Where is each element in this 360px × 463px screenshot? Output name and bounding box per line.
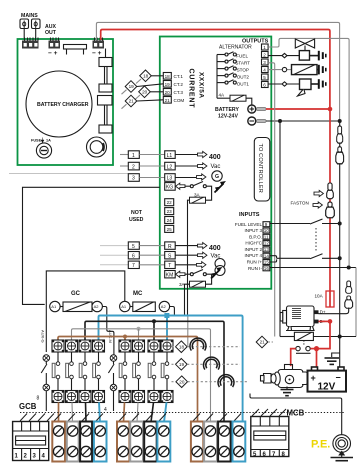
fuse F-mains-1 — [20, 19, 29, 29]
svg-text:A2: A2 — [94, 304, 100, 309]
wire aux-out minus up-over to right (to batt minus vertical) — [96, 22, 339, 119]
svg-text:20: 20 — [179, 379, 185, 384]
svg-text:16: 16 — [264, 266, 270, 271]
red wires starter circuit — [317, 321, 331, 348]
terminal row 1 — [52, 340, 173, 352]
wire B+ red — [319, 320, 331, 322]
svg-text:18: 18 — [165, 74, 171, 79]
svg-text:20: 20 — [165, 90, 171, 95]
row2 to strips colored wires — [58, 402, 60, 422]
charger circle — [26, 71, 92, 137]
svg-text:6: 6 — [132, 253, 135, 259]
wire output1 alternator loop — [268, 38, 349, 267]
svg-text:9: 9 — [265, 222, 268, 227]
svg-text:CT.2: CT.2 — [174, 82, 184, 87]
MC coil — [133, 302, 156, 312]
PE ground — [338, 451, 345, 456]
gray drop c6 — [138, 329, 140, 340]
arrows 400Vac mains — [175, 154, 197, 156]
svg-text:13: 13 — [264, 247, 270, 252]
input boxes 9-16 — [263, 222, 270, 271]
battery 12V — [312, 367, 318, 371]
wire fuel level input to sender switch — [270, 223, 310, 225]
svg-text:A1: A1 — [51, 304, 57, 309]
black double arrow mains — [215, 181, 227, 193]
wire mains fuse2 to charger — [35, 29, 37, 41]
svg-text:XXX/5A: XXX/5A — [197, 72, 204, 99]
R S T KM boxes — [165, 242, 176, 249]
charger toroid — [87, 137, 107, 157]
brown phase bus — [58, 337, 198, 422]
GCB block — [13, 422, 49, 461]
svg-text:12V-24V: 12V-24V — [218, 114, 238, 120]
svg-text:G: G — [215, 174, 219, 180]
terminal boxes 1-3 — [128, 151, 139, 159]
wire PE loop — [250, 394, 342, 435]
faston pair on red line — [326, 183, 335, 218]
svg-text:21: 21 — [165, 98, 171, 103]
GC A2 circle — [92, 301, 102, 311]
KM switch and fuse 3A — [176, 271, 185, 277]
svg-text:A1: A1 — [121, 304, 127, 309]
right vertical to relay — [355, 268, 357, 337]
wire batt minus to right — [266, 120, 340, 122]
stop solenoid relay box — [292, 65, 318, 75]
svg-text:2: 2 — [132, 164, 135, 170]
wire stop output — [268, 69, 291, 71]
svg-text:TO CONTROLLER: TO CONTROLLER — [257, 144, 263, 193]
blue drop c8 — [166, 316, 168, 341]
relay component inside charger — [64, 45, 87, 50]
svg-text:12: 12 — [264, 241, 270, 246]
black phase bus — [85, 321, 224, 421]
GC A1 circle — [50, 301, 60, 311]
output switches rows 2-6 — [217, 52, 236, 56]
battery minus pill — [257, 119, 267, 122]
batt minus vertical right branch — [339, 121, 341, 367]
gray phase bus — [72, 329, 211, 422]
svg-text:− +: − + — [92, 50, 102, 57]
svg-text:T: T — [168, 263, 171, 269]
relay wire through — [280, 336, 294, 338]
hatches over strips g2 — [119, 414, 166, 422]
gen sense wires rows 5-7 — [100, 245, 128, 247]
svg-text:15: 15 — [264, 260, 270, 265]
svg-text:FUEL: FUEL — [236, 54, 248, 59]
strips group3 — [191, 422, 245, 462]
wire batt plus red to right — [266, 108, 330, 110]
svg-text:1: 1 — [132, 153, 135, 159]
svg-text:20: 20 — [142, 90, 148, 95]
svg-text:5: 5 — [132, 244, 135, 250]
wires inputs 14-15 bracket — [270, 256, 277, 262]
svg-text:10A: 10A — [315, 294, 324, 299]
valve symbol — [295, 39, 314, 48]
hatches over strips g3 — [193, 414, 241, 422]
relay contacts — [303, 341, 305, 347]
fuel solenoid — [299, 51, 309, 61]
terminal block aux out left — [48, 38, 60, 58]
svg-text:19: 19 — [165, 82, 171, 87]
L1 L2 L3 KG boxes — [165, 151, 176, 159]
brown dot c5 — [123, 335, 127, 339]
start relay — [294, 332, 313, 340]
wire loop to MC coil — [46, 271, 125, 352]
svg-text:6: 6 — [263, 82, 266, 87]
CT terminal boxes 18-21 — [163, 73, 171, 104]
svg-text:RUN /+: RUN /+ — [247, 260, 263, 265]
terminal boxes 5-7 — [128, 242, 139, 249]
svg-text:INPUT 2: INPUT 2 — [244, 247, 262, 252]
hatches over GCB — [20, 414, 54, 422]
charger filter chain — [99, 58, 112, 67]
svg-text:1: 1 — [263, 45, 266, 50]
ground mid (battery minus) — [332, 353, 340, 357]
diamond tag 19 — [176, 359, 188, 371]
diamond tag 20 — [176, 376, 188, 388]
wire out1 output — [268, 83, 299, 85]
svg-text:4: 4 — [263, 67, 266, 72]
dashed CT links — [172, 346, 176, 348]
svg-text:23: 23 — [167, 209, 173, 214]
svg-text:22: 22 — [167, 200, 173, 205]
svg-text:GC: GC — [71, 291, 81, 297]
svg-text:HIGH°C: HIGH°C — [245, 241, 262, 246]
dotted linkage line — [20, 412, 345, 414]
diamond tag 21 engine — [256, 336, 268, 348]
faston arrows — [314, 190, 323, 196]
CT2 — [204, 357, 220, 370]
svg-text:FUSE: FUSE — [31, 139, 42, 143]
strips group1 — [52, 422, 106, 462]
G circle — [212, 171, 222, 181]
svg-text:OUT2: OUT2 — [237, 75, 250, 80]
svg-text:5: 5 — [263, 75, 266, 80]
svg-text:18: 18 — [143, 74, 149, 79]
svg-text:400: 400 — [209, 245, 221, 252]
wires diamonds to CT terms — [151, 75, 163, 77]
svg-text:+: + — [311, 373, 316, 383]
battery charger box — [18, 39, 114, 165]
svg-text:3: 3 — [132, 176, 135, 182]
svg-text:INPUTS: INPUTS — [239, 212, 260, 218]
battery minus circle — [248, 117, 256, 125]
svg-text:L3: L3 — [167, 176, 173, 182]
svg-text:NOT: NOT — [131, 210, 143, 216]
svg-text:BATTERY CHARGER: BATTERY CHARGER — [37, 102, 89, 108]
svg-text:−: − — [336, 373, 341, 383]
black drop c7 — [153, 321, 155, 340]
wire GC A2 down to aux-m — [102, 307, 114, 355]
mains sense wires rows 1-3 — [9, 173, 128, 175]
svg-text:ALTERNATOR: ALTERNATOR — [219, 45, 252, 51]
svg-text:2: 2 — [263, 52, 266, 57]
svg-text:25: 25 — [167, 227, 173, 232]
wire mains fuse1 to charger — [23, 29, 25, 41]
svg-text:3: 3 — [263, 60, 266, 65]
fuse 4A — [217, 97, 222, 99]
svg-text:4A: 4A — [219, 93, 226, 98]
aux M chain — [110, 355, 117, 362]
aux G chain — [43, 355, 50, 362]
black double arrow gen — [211, 267, 223, 279]
output terminal boxes 1-6 — [262, 44, 269, 88]
hatches over strips g1 — [54, 414, 103, 422]
svg-text:KM: KM — [166, 272, 174, 278]
dotted link between switches — [315, 228, 317, 251]
wire start output down to relay — [268, 63, 275, 337]
wire MC A2 to neutral bus — [170, 307, 175, 316]
svg-text:7: 7 — [132, 263, 135, 269]
svg-text:19: 19 — [179, 362, 185, 367]
svg-text:START: START — [235, 61, 250, 66]
svg-text:19: 19 — [129, 84, 135, 89]
starter ground — [286, 387, 288, 390]
faston pair on black minus line — [336, 126, 344, 164]
connector diamond fuel — [282, 53, 287, 57]
black junction top — [278, 119, 282, 123]
starter motor — [285, 365, 293, 371]
fuse holder circle — [36, 143, 51, 158]
connector diamond out1 — [282, 82, 287, 86]
terminal row 2 — [52, 391, 173, 403]
diamond tag 18 — [176, 341, 188, 353]
diamond 20 — [139, 86, 151, 98]
svg-text:14: 14 — [264, 253, 270, 258]
gray dot c6 — [137, 327, 141, 331]
svg-text:21: 21 — [260, 340, 266, 345]
wire loop controller to GC coil — [23, 187, 160, 304]
svg-text:18: 18 — [179, 344, 185, 349]
svg-text:KG: KG — [166, 185, 173, 191]
terminal block aux out right (battery) — [92, 38, 104, 58]
svg-text:P.E.: P.E. — [311, 439, 330, 451]
svg-text:Vac: Vac — [211, 164, 221, 170]
diamond 19 — [125, 81, 137, 93]
svg-text:11: 11 — [264, 234, 269, 239]
svg-text:FASTON: FASTON — [291, 201, 309, 206]
KG switch and fuse 3A — [176, 183, 185, 189]
svg-text:CURRENT: CURRENT — [187, 69, 194, 109]
wires 5-7 to RST — [139, 245, 164, 247]
svg-text:12V: 12V — [318, 382, 336, 393]
output switch bus — [216, 55, 218, 99]
svg-text:USED: USED — [129, 217, 144, 223]
wires 1-3 to L boxes — [139, 154, 164, 156]
blue neutral bus — [99, 316, 243, 422]
PE rings — [333, 435, 351, 453]
fuse F-mains-2 — [32, 19, 41, 29]
fuse 10A on red — [326, 291, 334, 307]
svg-text:A2: A2 — [161, 304, 167, 309]
svg-text:400: 400 — [209, 154, 221, 161]
battery plus circle — [248, 105, 256, 113]
svg-text:21: 21 — [129, 99, 135, 104]
main contacts row — [52, 352, 169, 391]
CT1 — [190, 338, 206, 351]
svg-text:CT.1: CT.1 — [174, 74, 184, 79]
wire run switch row — [277, 257, 310, 259]
svg-text:MAINS: MAINS — [21, 13, 38, 19]
MC A1 circle — [120, 301, 130, 311]
faston pair on gray line — [345, 281, 353, 308]
brown drop c5 — [124, 337, 126, 341]
svg-text:INPUT 4: INPUT 4 — [244, 253, 262, 258]
svg-text:RUN I-: RUN I- — [248, 266, 263, 271]
arrows 400Vac gen — [175, 245, 197, 247]
MC A2 circle — [159, 301, 169, 311]
batt minus vertical left branch — [279, 121, 281, 337]
out solenoid with lever — [300, 79, 312, 90]
wire fuel output — [268, 55, 299, 57]
svg-text:1A: 1A — [46, 139, 51, 143]
red vertical from charger join battery plus — [328, 107, 333, 112]
B+ terminal — [314, 320, 319, 324]
black dot c7 — [152, 319, 156, 323]
alternator body — [287, 306, 315, 327]
svg-text:10: 10 — [264, 228, 270, 233]
hatches over MCB — [252, 409, 286, 416]
svg-text:FUEL LEVEL: FUEL LEVEL — [235, 222, 263, 227]
svg-text:COM: COM — [174, 98, 185, 103]
svg-text:24: 24 — [167, 218, 173, 223]
svg-text:BATTERY: BATTERY — [215, 107, 239, 113]
svg-text:8: 8 — [37, 396, 40, 402]
wire run I- row — [270, 267, 356, 269]
CT3 — [218, 375, 234, 388]
wire D+ to gray vertical — [319, 308, 349, 314]
svg-text:− +: − + — [48, 50, 58, 57]
connector circle stop — [282, 67, 286, 71]
svg-text:L1: L1 — [167, 153, 173, 159]
svg-text:OUT1: OUT1 — [237, 82, 250, 87]
D+ terminal — [314, 310, 319, 314]
svg-text:R: R — [168, 244, 172, 250]
svg-text:STOP: STOP — [237, 68, 249, 73]
TO CONTROLLER box — [254, 138, 269, 202]
diamond 21 — [125, 95, 137, 107]
diamond 18 — [140, 70, 152, 82]
svg-text:CT.3: CT.3 — [174, 90, 184, 95]
svg-text:OUT: OUT — [45, 30, 57, 36]
controller box — [160, 37, 271, 289]
wire aux-out plus (red) to right — [101, 30, 330, 109]
svg-text:GCB: GCB — [19, 402, 37, 411]
GC coil — [63, 302, 92, 312]
MCB block — [251, 417, 289, 459]
strips group2 — [117, 422, 170, 462]
svg-text:MC: MC — [133, 291, 143, 297]
battery plus pill — [257, 107, 267, 110]
svg-text:B.P.O.: B.P.O. — [249, 234, 262, 239]
svg-text:AUX-G: AUX-G — [41, 330, 46, 343]
terminal block mains 3x — [22, 38, 39, 49]
transformer circles — [215, 259, 225, 269]
svg-text:INPUT 3: INPUT 3 — [244, 228, 262, 233]
svg-text:L2: L2 — [167, 164, 173, 170]
blue junction c8 — [164, 313, 169, 318]
